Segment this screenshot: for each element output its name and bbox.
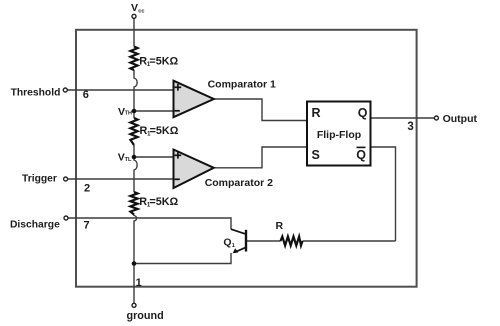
svg-text:cc: cc: [138, 8, 144, 14]
svg-text:6: 6: [83, 89, 89, 101]
svg-text:=5KΩ: =5KΩ: [150, 125, 179, 137]
svg-text:ground: ground: [127, 310, 164, 322]
svg-text:V: V: [131, 2, 138, 14]
svg-text:7: 7: [84, 220, 90, 232]
svg-text:Discharge: Discharge: [10, 220, 60, 231]
svg-text:Output: Output: [443, 113, 478, 125]
svg-text:TL: TL: [125, 157, 132, 163]
svg-text:R: R: [276, 220, 284, 232]
svg-text:Comparator 1: Comparator 1: [208, 79, 276, 91]
svg-text:Threshold: Threshold: [11, 87, 61, 98]
svg-text:3: 3: [407, 121, 413, 133]
svg-text:Q: Q: [223, 237, 231, 249]
svg-text:S: S: [312, 148, 320, 162]
svg-text:Flip-Flop: Flip-Flop: [317, 129, 361, 141]
svg-text:=5KΩ: =5KΩ: [149, 55, 178, 67]
svg-text:Trigger: Trigger: [22, 174, 57, 185]
svg-text:2: 2: [84, 182, 90, 194]
svg-text:Comparator 2: Comparator 2: [205, 177, 273, 189]
svg-text:=5KΩ: =5KΩ: [149, 196, 178, 208]
svg-text:Q: Q: [358, 106, 368, 120]
svg-text:TH: TH: [125, 111, 132, 117]
svg-text:1: 1: [232, 243, 235, 249]
svg-text:R: R: [312, 106, 321, 120]
svg-text:1: 1: [136, 277, 142, 289]
svg-text:Q: Q: [356, 148, 366, 162]
